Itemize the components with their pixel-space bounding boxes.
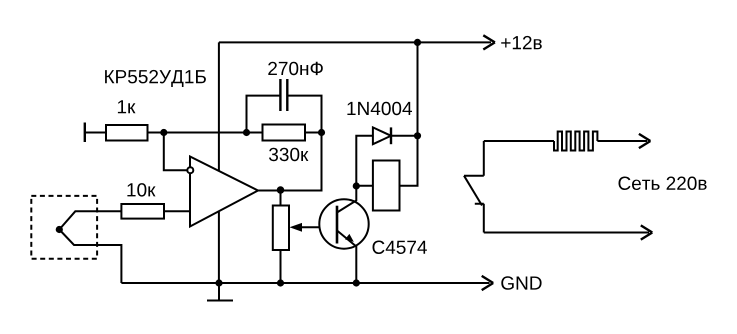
inductor L1 square winding	[554, 132, 597, 151]
wire: input to R1	[85, 132, 106, 134]
resistor R1 1k body	[106, 125, 148, 141]
label: 1к	[118, 100, 136, 113]
wire: potentiometer bottom to ground rail	[280, 250, 282, 283]
label: 330к	[269, 148, 308, 162]
wire: choke to mains top arrow	[597, 140, 647, 142]
wire: R2 to right dot	[305, 132, 322, 134]
transistor Q1 emitter arrowhead	[345, 234, 354, 242]
node: output junction	[277, 186, 285, 194]
node: op-amp ground junction	[215, 279, 222, 286]
arrow: mains bottom terminal	[641, 225, 653, 239]
wire: feedback down to op-amp output	[258, 133, 322, 191]
wire: sensor top lead to R3	[59, 211, 121, 229]
wire: diode cathode to +12 branch	[391, 135, 418, 137]
diode VD1 cathode bar	[390, 127, 392, 144]
wire: mains top lead to choke	[484, 140, 554, 142]
wire: mains bottom lead	[484, 232, 649, 234]
node: feedback right junction	[318, 129, 325, 136]
label: 1N4004	[347, 102, 412, 116]
op-amp U1 triangle	[190, 157, 258, 227]
transistor Q1 base bar	[336, 206, 339, 244]
arrow: GND terminal	[482, 276, 494, 290]
label: Сеть 220в	[619, 177, 707, 191]
potentiometer RP1 wiper arrow	[290, 223, 303, 232]
label: GND	[501, 276, 541, 290]
potentiometer RP1 body	[273, 206, 289, 251]
node: +12V rail / diode branch junction	[414, 39, 421, 46]
relay K1 coil body	[373, 161, 400, 211]
wire: ground rail	[121, 282, 489, 284]
arrow: +12V terminal	[483, 35, 495, 49]
label: 10к	[127, 183, 155, 197]
wire: output down to potentiometer	[280, 191, 282, 206]
wire: wiper to transistor base	[296, 226, 319, 228]
transistor Q1 collector stroke	[337, 187, 356, 213]
node: inverting input junction	[160, 129, 167, 136]
wire: relay left lead	[356, 185, 373, 187]
terminal: input pin bar	[84, 123, 86, 143]
transistor Q1 emitter stroke	[337, 231, 356, 284]
resistor R2 330k body	[263, 125, 306, 141]
capacitor C1 270nF plates	[280, 79, 287, 111]
label: 270нФ	[268, 62, 323, 75]
label: C4574	[373, 241, 427, 255]
relay contact K1.1 blade	[464, 176, 482, 206]
node: potentiometer ground junction	[277, 279, 284, 286]
wire: +12 branch down to relay right lead	[400, 42, 418, 185]
wire: left dot to R2	[247, 132, 263, 134]
wire: sensor bottom lead to ground rail	[59, 230, 121, 284]
wire: op-amp V- supply drop	[218, 212, 220, 283]
wire: R3 to non-inverting input	[164, 210, 190, 212]
wire: tap down to op-amp inverting input	[164, 133, 187, 171]
node: diode cathode junction	[414, 132, 421, 139]
node: collector / relay / diode junction	[353, 182, 360, 189]
label: +12в	[501, 36, 542, 49]
capacitor C1 270nF right lead	[287, 96, 321, 133]
resistor R3 10k body	[121, 204, 164, 219]
node: feedback left junction	[243, 129, 250, 136]
transistor Q1 circle	[319, 199, 368, 248]
diode VD1 1N4004 triangle	[373, 127, 391, 144]
relay contact K1.1 top terminal	[464, 141, 484, 176]
label: КР552УД1Б	[105, 70, 206, 87]
pin: inverting input bubble	[187, 167, 193, 173]
wire: junction up to diode anode	[356, 136, 373, 186]
sensor BQ1 dashed enclosure	[31, 196, 97, 259]
ground symbol	[207, 283, 233, 301]
wire: op-amp output to feedback corner	[258, 190, 322, 192]
arrow: mains top terminal	[639, 134, 651, 148]
wire: R1 to inverting node	[148, 132, 247, 134]
capacitor C1 270nF left lead	[247, 96, 281, 133]
wire: +12V rail from op-amp supply to arrow	[219, 41, 491, 43]
sensor BQ1 common point	[56, 226, 63, 233]
wire: op-amp V+ supply drop	[218, 42, 220, 171]
relay contact K1.1 bottom terminal	[475, 204, 484, 233]
node: emitter ground junction	[353, 279, 360, 286]
